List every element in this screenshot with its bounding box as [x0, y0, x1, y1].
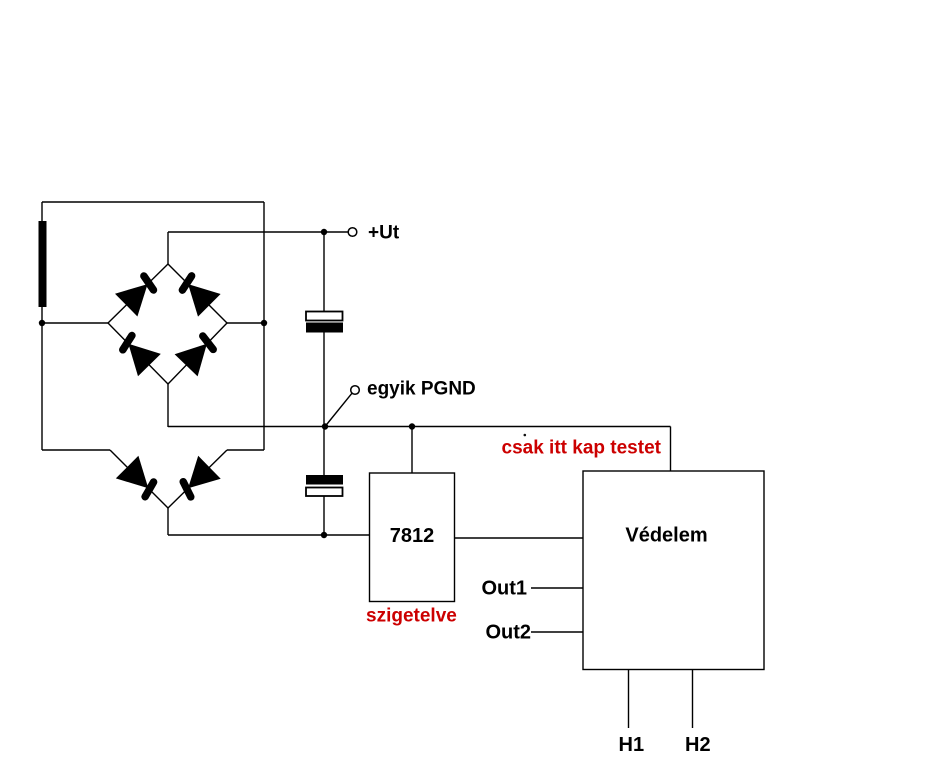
wire Vedelem top lead: [670, 427, 672, 472]
wire lower-right winding wire: [227, 449, 264, 451]
regulator U1 7812 box: [370, 473, 455, 602]
label 7812: [390, 525, 435, 547]
wire PGND stub: [325, 393, 352, 426]
wire H1 pin: [628, 670, 630, 729]
svg-text:szigetelve: szigetelve: [366, 606, 457, 627]
capacitor C1: [306, 312, 343, 333]
label H2: [685, 734, 711, 756]
wire lower-left winding wire: [42, 449, 110, 451]
svg-text:Out2: Out2: [486, 622, 532, 644]
label +Ut: [368, 223, 400, 244]
svg-text:H2: H2: [685, 734, 711, 756]
terminal PGND circle: [351, 386, 360, 395]
svg-text:H1: H1: [619, 734, 645, 756]
node right AC node: [261, 320, 267, 326]
diode D1: [115, 276, 154, 317]
terminal +Ut circle: [348, 228, 357, 237]
node C2 / bottom rail junction: [321, 532, 327, 538]
node left AC node: [39, 320, 45, 326]
wire H2 pin: [692, 670, 694, 729]
stray dot: [524, 434, 527, 437]
label szigetelve: [366, 606, 457, 627]
wire Out2 lead: [531, 631, 583, 633]
label Out2: [486, 622, 532, 644]
wire bridge arm lower-left: [108, 323, 168, 384]
protection module box Vedelem: [583, 471, 764, 670]
diode D4: [175, 336, 214, 376]
wire bridge top node riser: [167, 232, 169, 264]
node +Ut / C1 junction: [321, 229, 327, 235]
wire +Ut rail: [168, 231, 348, 233]
svg-text:+Ut: +Ut: [368, 223, 400, 244]
label egyik PGND: [367, 379, 476, 400]
svg-text:7812: 7812: [390, 525, 435, 547]
wire lower-right diode arm: [168, 450, 227, 508]
label H1: [619, 734, 645, 756]
wire V vertex drop: [167, 508, 169, 535]
wire left node tap: [42, 322, 108, 324]
capacitor C2: [306, 475, 343, 496]
label csak itt kap testet: [502, 438, 662, 459]
label Out1: [482, 578, 528, 600]
wire lower-left diode arm: [110, 450, 168, 508]
wire Out1 lead: [531, 587, 583, 589]
wire mid ground rail: [168, 426, 671, 428]
node PGND junction: [322, 423, 328, 429]
wire 7812 input riser: [411, 427, 413, 474]
diode D5: [116, 456, 154, 497]
wire C1 top lead: [323, 232, 325, 312]
wire bridge arm upper-right: [168, 264, 227, 323]
wire C1 bottom lead: [323, 332, 325, 427]
wire left vertical: [41, 202, 43, 450]
wire bridge bottom node drop: [167, 384, 169, 427]
svg-text:Védelem: Védelem: [625, 525, 707, 547]
label Vedelem: [625, 525, 707, 547]
wire bottom rail to 7812: [168, 534, 370, 536]
wire bridge arm lower-right: [168, 323, 227, 384]
svg-text:Out1: Out1: [482, 578, 528, 600]
diode D6: [183, 456, 221, 497]
wire C2 top lead: [323, 427, 325, 476]
wire bridge arm upper-left: [108, 264, 168, 323]
diode D3: [123, 336, 161, 377]
wire 7812 output to Vedelem: [455, 537, 584, 539]
diode D2: [182, 276, 220, 317]
wire right vertical: [263, 202, 265, 450]
wire right node tap: [227, 322, 264, 324]
transformer secondary winding bar: [39, 221, 47, 307]
svg-text:egyik PGND: egyik PGND: [367, 379, 476, 400]
wire C2 bottom lead: [323, 496, 325, 535]
node 7812 input junction: [409, 423, 415, 429]
svg-text:csak itt kap testet: csak itt kap testet: [502, 438, 662, 459]
wire top rail: [42, 201, 264, 203]
